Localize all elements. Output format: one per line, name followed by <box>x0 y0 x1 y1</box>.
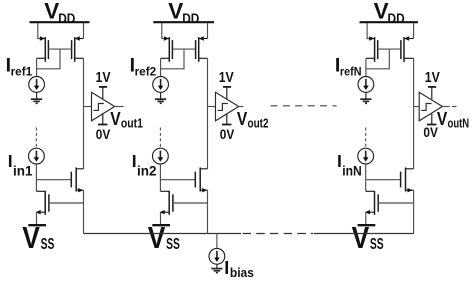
wire N1a source to bias rail <box>83 190 85 233</box>
wire PNb drain column (comparator input node) <box>413 58 415 169</box>
label Vout2 <box>237 108 269 130</box>
wire Iin2 to N2a gate / N2b drain <box>160 164 195 191</box>
transistor P1b (PMOS mirror) <box>72 36 84 62</box>
label IinN <box>337 151 362 178</box>
svg-text:DD: DD <box>58 10 75 26</box>
svg-text:ref2: ref2 <box>135 65 157 79</box>
wire Iin1 to N1a gate / N1b drain <box>36 164 71 191</box>
wire bias rail dashed continuation <box>243 233 314 235</box>
comparator UN (Schmitt trigger) <box>419 92 442 121</box>
svg-text:0V: 0V <box>220 126 235 142</box>
svg-text:SS: SS <box>166 236 180 253</box>
svg-text:out1: out1 <box>121 116 143 131</box>
svg-text:V: V <box>437 108 448 129</box>
current source Iin1 <box>29 148 45 164</box>
wire P1a drain to Iref1 <box>36 58 38 76</box>
wire P1b drain column (comparator input node) <box>83 58 85 169</box>
wire NNb gate to bias rail <box>378 202 413 204</box>
svg-text:SS: SS <box>41 236 55 253</box>
wire IinN to NNa gate / NNb drain <box>366 164 401 191</box>
power rail VDD (stage 1) <box>30 21 90 23</box>
transistor N2a (NMOS, in drain column) <box>195 168 207 193</box>
current source IrefN <box>358 77 374 93</box>
supply 1V terminal of U1 <box>99 87 107 99</box>
svg-text:0V: 0V <box>96 126 111 142</box>
ground (under Ibias) <box>211 264 222 273</box>
wire P2b drain column (comparator input node) <box>207 58 209 169</box>
svg-text:V: V <box>237 108 248 129</box>
svg-text:I: I <box>132 151 137 171</box>
svg-text:inN: inN <box>342 164 362 179</box>
wire N1b gate to bias rail <box>49 202 84 204</box>
svg-text:in2: in2 <box>137 164 157 179</box>
wire rail to Ibias <box>216 234 218 249</box>
svg-text:V: V <box>110 108 121 129</box>
transistor N1a (NMOS, in drain column) <box>71 168 83 193</box>
ground (under IrefN) <box>360 92 371 103</box>
transistor PNb (PMOS mirror) <box>401 36 414 62</box>
label Iref1 <box>6 54 33 78</box>
wire node to comparator input <box>208 106 216 108</box>
svg-text:V: V <box>148 221 166 255</box>
transistor N1b (NMOS to VSS) <box>36 191 49 215</box>
label VSS (stage 1) <box>22 221 54 255</box>
label IrefN <box>335 54 362 78</box>
svg-text:ref1: ref1 <box>11 65 33 79</box>
wire node to comparator input <box>84 106 92 108</box>
label VSS (stage 2) <box>148 221 180 255</box>
supply 1V terminal of UN <box>428 87 436 99</box>
transistor N2b (NMOS to VSS) <box>160 191 173 215</box>
wire N2a source to bias rail <box>207 190 209 233</box>
svg-text:1V: 1V <box>425 69 440 86</box>
wire (dashed continuation above Iin1) <box>35 128 37 148</box>
wire bias rail to stage N <box>314 233 414 235</box>
wire P2b source to VDD <box>207 23 209 39</box>
wire node to comparator input <box>414 106 420 108</box>
wire gate connection P2a/P2b with diode feedback <box>161 49 196 69</box>
transistor P2b (PMOS mirror) <box>196 36 208 62</box>
wire gate connection P1a/P1b with diode feedback <box>37 49 72 69</box>
svg-text:out2: out2 <box>248 116 269 131</box>
current source Ibias <box>209 248 225 264</box>
comparator U1 (Schmitt trigger) <box>92 92 115 121</box>
label VoutN <box>437 108 469 130</box>
label VSS (stage N) <box>352 221 384 255</box>
power symbol VSS (stage 2) <box>152 224 170 226</box>
wire (dashed continuation above Iin2) <box>159 128 161 148</box>
current source Iin2 <box>153 148 169 164</box>
ground (under Iref2) <box>155 92 166 103</box>
wire NNa source to bias rail <box>413 190 415 233</box>
supply 1V terminal of U2 <box>223 87 231 99</box>
wire dashed continuation Vout2 to stage N <box>271 105 337 107</box>
wire NNb source to VSS <box>365 212 367 224</box>
power symbol VSS (stage 1) <box>28 224 46 226</box>
svg-text:I: I <box>337 151 342 171</box>
supply 0V terminal of U2 <box>222 114 231 125</box>
supply 0V terminal of U1 <box>98 114 107 125</box>
transistor PNa (PMOS, diode-connected) <box>366 36 378 62</box>
wire PNb source to VDD <box>413 23 415 39</box>
svg-text:bias: bias <box>230 265 254 280</box>
comparator U2 (Schmitt trigger) <box>216 92 239 121</box>
wire N1b source to VSS <box>36 212 38 224</box>
svg-text:DD: DD <box>182 10 199 26</box>
svg-text:1V: 1V <box>219 69 234 86</box>
wire gate connection PNa/PNb with diode feedback <box>366 49 401 69</box>
transistor P2a (PMOS, diode-connected) <box>161 36 173 62</box>
transistor NNa (NMOS, in drain column) <box>401 168 414 193</box>
ground (under Iref1) <box>31 92 42 103</box>
transistor NNb (NMOS to VSS) <box>365 191 378 215</box>
current source Iref2 <box>153 77 169 93</box>
svg-text:V: V <box>352 221 370 255</box>
svg-text:V: V <box>22 221 40 255</box>
svg-text:refN: refN <box>340 65 362 79</box>
wire dashed continuation after VoutN <box>452 106 457 108</box>
svg-text:SS: SS <box>370 236 384 253</box>
label Iin1 <box>8 151 33 178</box>
svg-text:outN: outN <box>448 116 470 131</box>
wire U1 output Vout1 <box>115 106 124 108</box>
svg-text:I: I <box>8 151 13 171</box>
label Iref2 <box>130 54 157 78</box>
svg-text:1V: 1V <box>96 69 111 86</box>
wire N2b source to VSS <box>160 212 162 224</box>
svg-text:in1: in1 <box>13 164 33 179</box>
label VDD (stage N) <box>374 0 405 26</box>
power symbol VSS (stage N) <box>358 224 376 226</box>
transistor P1a (PMOS, diode-connected) <box>37 36 49 62</box>
wire PNa drain to IrefN <box>365 58 367 76</box>
svg-text:DD: DD <box>388 10 405 26</box>
current source IinN <box>358 148 374 164</box>
wire VDD to P2a source <box>162 23 169 39</box>
wire VDD to P1a source <box>38 23 45 39</box>
label VDD (stage 1) <box>44 0 75 26</box>
power rail VDD (stage 2) <box>153 21 214 23</box>
label Iin2 <box>132 151 157 178</box>
wire (dashed continuation above IinN) <box>365 128 367 148</box>
wire bias rail (stage 1 to stage 2 to Ibias) <box>84 233 242 235</box>
label Vout1 <box>110 108 143 130</box>
wire U2 output Vout2 <box>239 106 244 108</box>
svg-text:I: I <box>224 258 229 278</box>
wire P1b source to VDD <box>83 23 85 39</box>
wire UN output VoutN <box>442 106 449 108</box>
supply 0V terminal of UN <box>427 114 436 125</box>
label Ibias <box>224 258 254 280</box>
power rail VDD (stage N) <box>360 21 419 23</box>
label VDD (stage 2) <box>168 0 199 26</box>
current source Iref1 <box>29 77 45 93</box>
wire VDD to PNa source <box>367 23 374 39</box>
wire N2b gate to bias rail <box>173 202 208 204</box>
wire P2a drain to Iref2 <box>160 58 162 76</box>
